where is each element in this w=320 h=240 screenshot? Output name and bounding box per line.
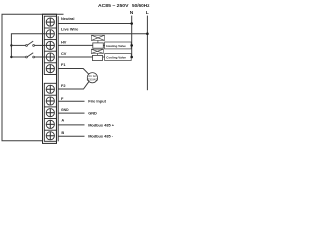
cell divider 7 — [44, 118, 56, 120]
terminal screw 9 — [46, 120, 54, 128]
device outer frame — [2, 14, 64, 141]
terminal screw 10 — [46, 132, 54, 140]
switch S2 contact right — [33, 56, 35, 58]
wire B row — [58, 135, 84, 137]
switch S2 contact left — [26, 56, 28, 58]
cell divider 8 — [44, 129, 56, 131]
svg-text:GND: GND — [88, 110, 97, 115]
svg-text:Modbus 485 -: Modbus 485 - — [88, 134, 114, 139]
svg-text:B: B — [61, 130, 64, 135]
wire N vertical — [131, 16, 133, 57]
switch S1 contact left — [26, 45, 28, 47]
wire CV row — [58, 56, 93, 58]
cell divider 3 — [44, 50, 56, 52]
wire live row — [58, 33, 147, 35]
svg-text:CV: CV — [61, 51, 67, 56]
heating valve coil — [93, 43, 104, 48]
svg-text:A: A — [61, 118, 64, 123]
svg-text:Modbus 485 +: Modbus 485 + — [88, 122, 115, 127]
svg-text:50/60Hz: 50/60Hz — [132, 3, 150, 8]
svg-text:GND: GND — [61, 107, 69, 112]
junction neutral-N — [130, 22, 133, 25]
terminal screw 6 — [46, 85, 54, 93]
terminal screw 3 — [46, 41, 54, 49]
switch S1 contact right — [33, 45, 35, 47]
wire neutral row — [58, 23, 132, 25]
svg-text:Neutral: Neutral — [61, 16, 74, 21]
terminal block upper — [44, 16, 56, 74]
svg-text:Fire Input: Fire Input — [88, 99, 106, 104]
switch S1 wire right — [35, 44, 46, 46]
cooling valve coil — [92, 55, 102, 60]
internal bus — [11, 34, 45, 57]
svg-text:L: L — [146, 10, 149, 16]
cell divider 5 — [44, 94, 56, 96]
terminal screw 1 — [46, 18, 54, 26]
svg-text:N: N — [130, 10, 134, 16]
terminal screw 4 — [46, 53, 54, 61]
switch S2 wire right — [35, 56, 46, 58]
cell divider 1 — [44, 27, 56, 29]
wire GND row — [58, 112, 84, 114]
svg-text:HV: HV — [61, 39, 67, 44]
switch S1 blade — [27, 41, 33, 45]
terminal screw 5 — [46, 65, 54, 73]
heating valve body — [91, 35, 104, 43]
wire HV row — [58, 44, 93, 46]
junction on bus at HV row — [10, 44, 12, 46]
terminal screw 8 — [46, 109, 54, 117]
cell divider 6 — [44, 106, 56, 108]
cooling valve label box — [105, 54, 132, 61]
terminal screw 2 — [46, 30, 54, 38]
junction on bus at CV row — [10, 56, 12, 58]
wire F row — [58, 100, 84, 102]
cell divider 2 — [44, 39, 56, 41]
fan motor M1 — [87, 73, 97, 83]
wire F2 row — [58, 82, 89, 89]
junction live-L — [146, 32, 149, 35]
svg-text:Live Wire: Live Wire — [61, 27, 79, 32]
wire L vertical — [146, 16, 148, 91]
cell divider 4 — [44, 62, 56, 64]
terminal block lower — [44, 83, 56, 141]
cooling valve body — [91, 49, 103, 55]
svg-text:Cooling Valve: Cooling Valve — [106, 55, 126, 59]
wire F1 row — [58, 69, 89, 75]
svg-text:AC85 ~ 250V: AC85 ~ 250V — [98, 3, 129, 8]
wire HV to box — [103, 44, 104, 46]
heating valve label box — [105, 42, 132, 49]
junction HV-N — [130, 44, 133, 47]
terminal strip housing — [43, 14, 57, 143]
switch S2 wire left — [11, 56, 25, 58]
label table left edge — [57, 16, 59, 141]
svg-text:(220VAC): (220VAC) — [87, 77, 98, 81]
switch S1 wire left — [11, 44, 25, 46]
switch S2 blade — [27, 53, 33, 57]
wire CV to box — [103, 56, 104, 58]
wire A row — [58, 124, 84, 126]
terminal screw 7 — [46, 97, 54, 105]
junction CV-N — [130, 56, 133, 59]
svg-text:Heating Valve: Heating Valve — [106, 44, 126, 48]
